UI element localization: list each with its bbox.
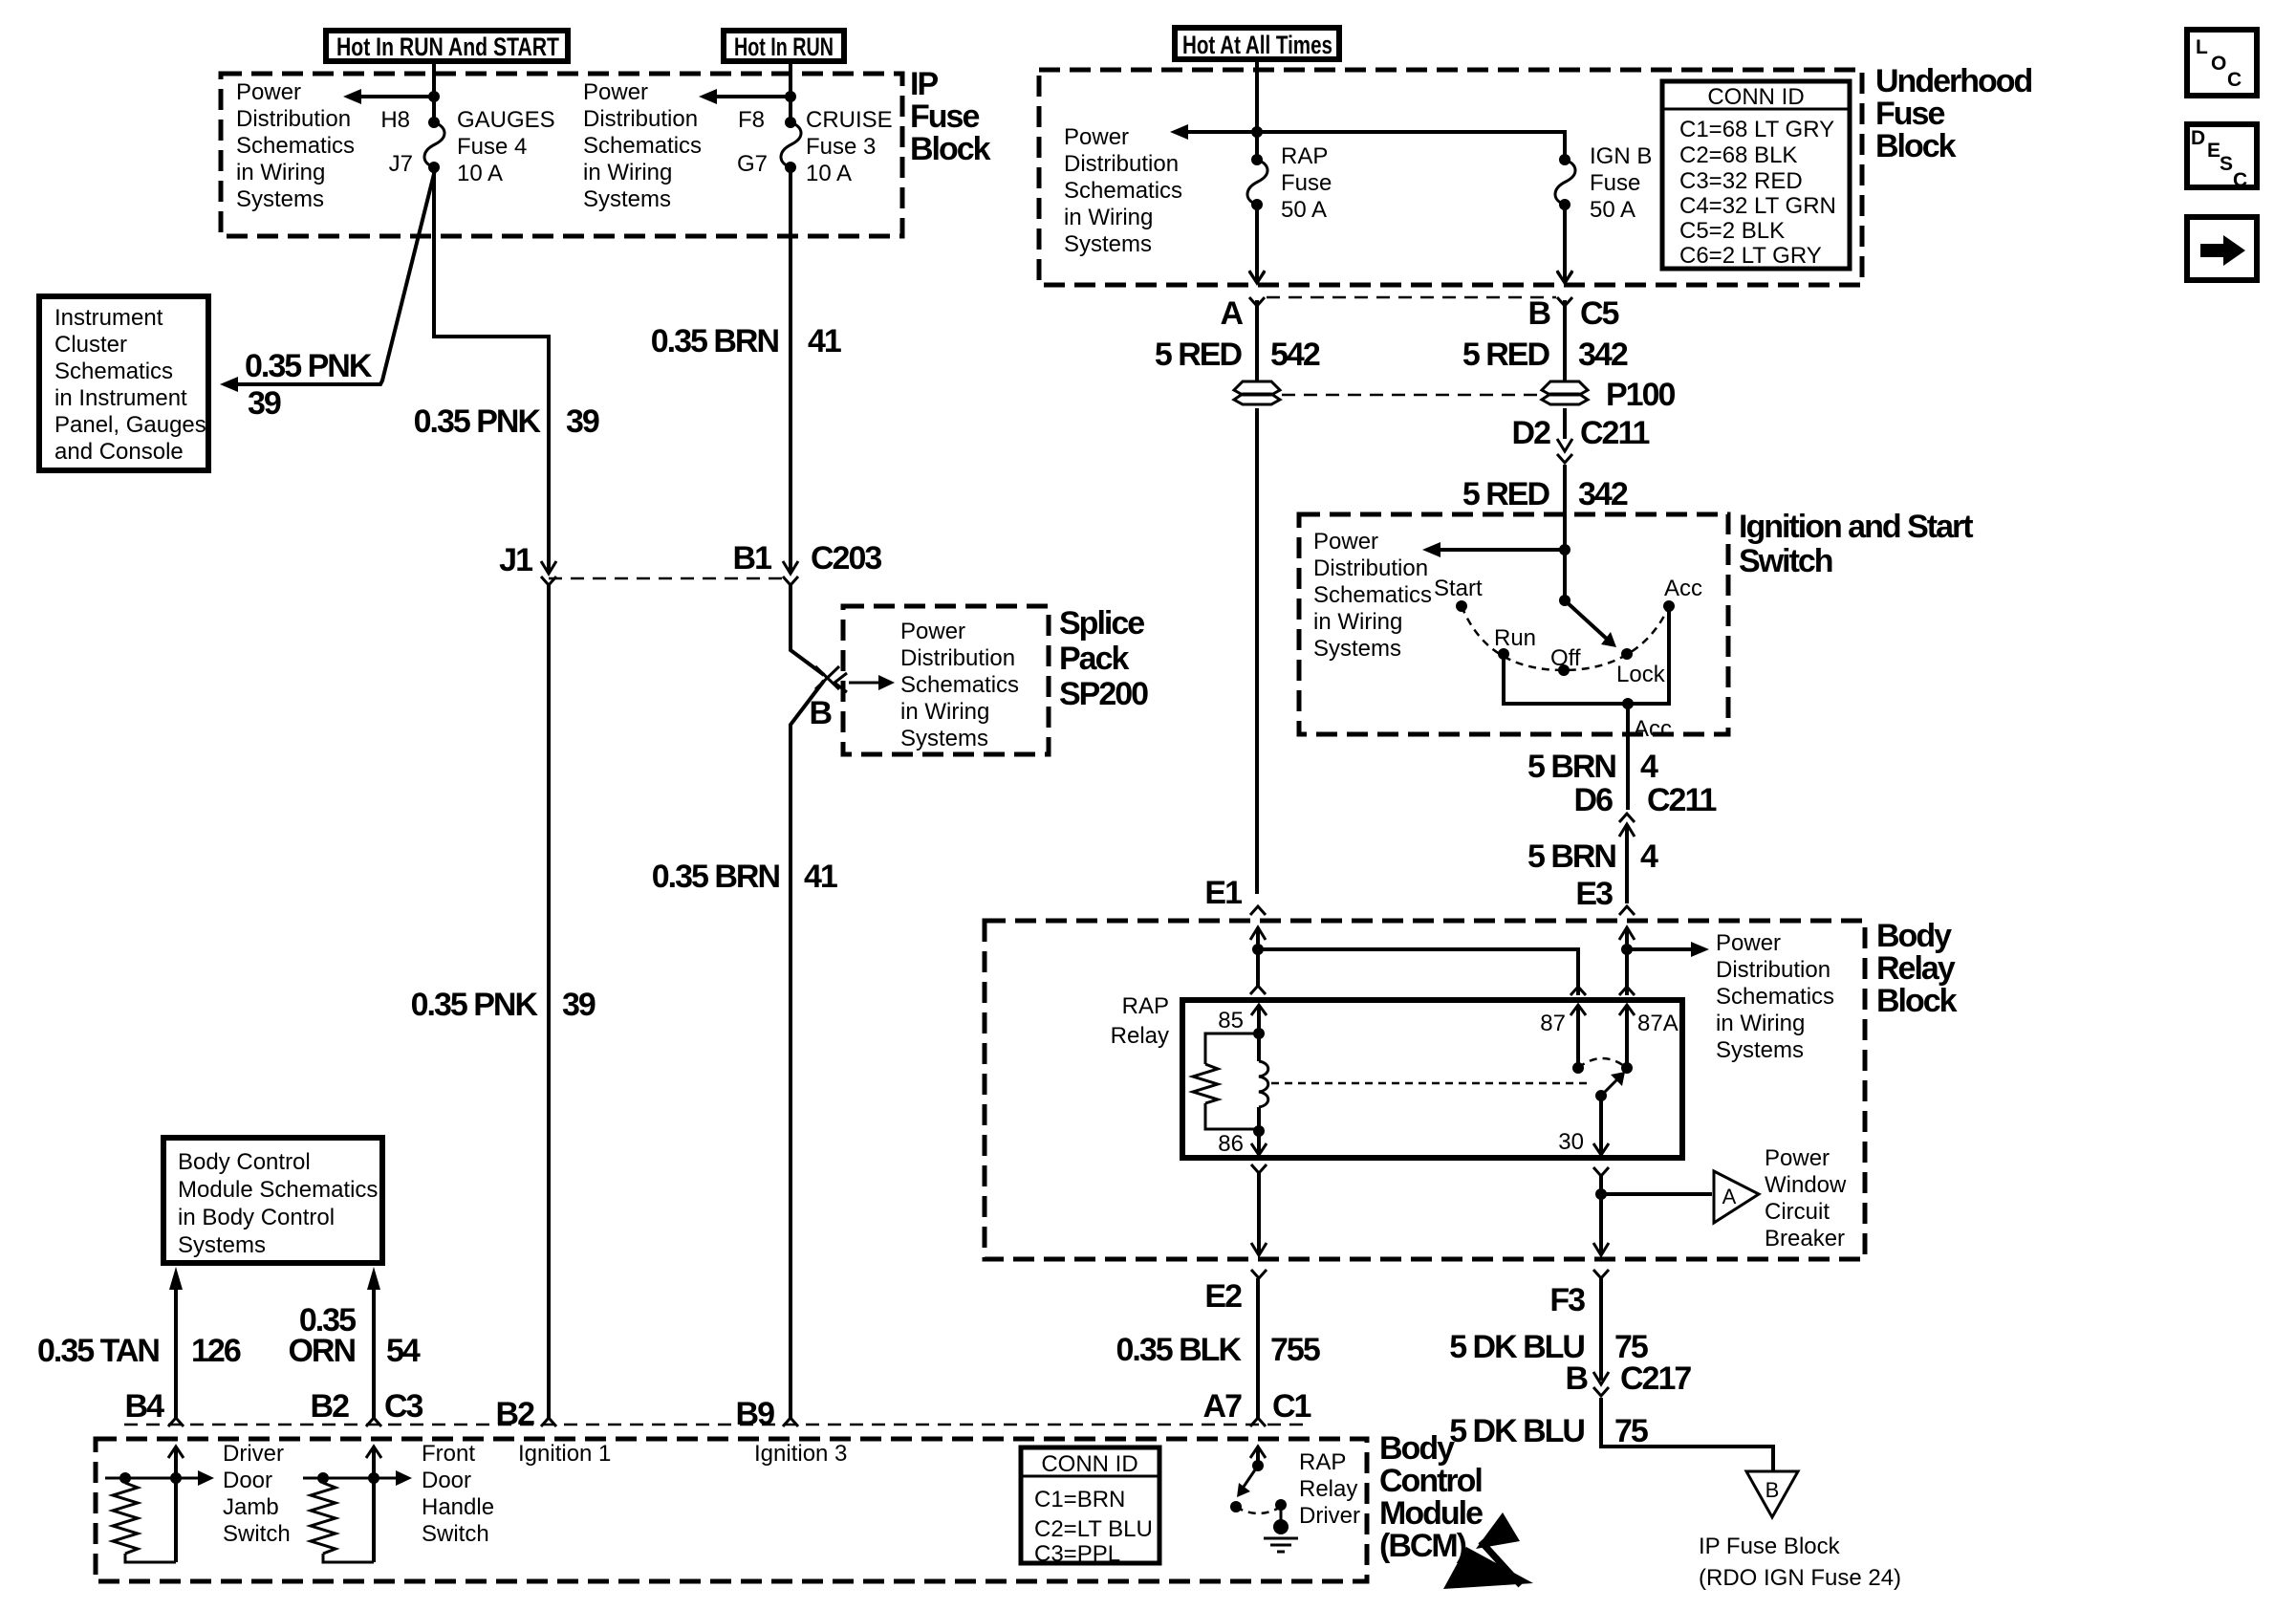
svg-text:C203: C203: [811, 540, 881, 577]
svg-text:C1: C1: [1272, 1388, 1311, 1425]
svg-text:Start: Start: [1434, 576, 1483, 601]
svg-text:D2: D2: [1512, 415, 1551, 451]
svg-text:4: 4: [1640, 838, 1658, 875]
svg-text:B2: B2: [311, 1388, 350, 1425]
svg-text:87A: 87A: [1637, 1011, 1679, 1036]
svg-text:Window: Window: [1765, 1172, 1847, 1198]
svg-text:542: 542: [1270, 337, 1320, 373]
svg-text:A: A: [1220, 295, 1243, 332]
svg-text:Acc: Acc: [1664, 576, 1702, 601]
svg-text:0.35 PNK: 0.35 PNK: [245, 348, 373, 384]
svg-text:Systems: Systems: [1313, 636, 1401, 662]
svg-text:39: 39: [248, 385, 281, 422]
svg-text:5 RED: 5 RED: [1462, 337, 1550, 373]
svg-text:Switch: Switch: [422, 1521, 489, 1547]
svg-text:86: 86: [1218, 1131, 1244, 1157]
svg-text:0.35 PNK: 0.35 PNK: [414, 403, 542, 440]
svg-text:Splice: Splice: [1059, 605, 1144, 642]
svg-text:Hot In RUN And START: Hot In RUN And START: [336, 33, 559, 61]
svg-text:Power: Power: [1765, 1145, 1830, 1171]
svg-text:Schematics: Schematics: [1716, 984, 1834, 1010]
svg-text:Body: Body: [1876, 918, 1952, 954]
svg-text:Systems: Systems: [900, 726, 988, 751]
svg-text:C1=68 LT GRY: C1=68 LT GRY: [1679, 117, 1834, 142]
svg-text:Switch: Switch: [223, 1521, 291, 1547]
svg-text:Module: Module: [1379, 1495, 1483, 1532]
svg-text:Handle: Handle: [422, 1494, 494, 1520]
svg-text:B: B: [1765, 1478, 1780, 1502]
svg-text:RAP: RAP: [1281, 143, 1328, 169]
svg-text:Door: Door: [422, 1468, 471, 1493]
svg-text:Cluster: Cluster: [54, 332, 127, 358]
svg-text:D6: D6: [1574, 782, 1614, 818]
svg-text:Systems: Systems: [583, 186, 671, 212]
svg-text:Ignition 1: Ignition 1: [518, 1441, 611, 1467]
svg-text:Distribution: Distribution: [1313, 555, 1428, 581]
svg-text:Power: Power: [583, 79, 648, 105]
svg-text:75: 75: [1614, 1413, 1648, 1449]
svg-text:in Body Control: in Body Control: [178, 1205, 335, 1230]
svg-text:39: 39: [566, 403, 599, 440]
svg-text:E3: E3: [1575, 876, 1613, 912]
svg-text:Relay: Relay: [1111, 1023, 1169, 1049]
svg-text:Relay: Relay: [1299, 1476, 1357, 1502]
svg-text:CONN ID: CONN ID: [1041, 1451, 1137, 1477]
svg-text:C211: C211: [1580, 415, 1649, 451]
svg-text:Fuse: Fuse: [1875, 96, 1944, 132]
svg-text:B4: B4: [125, 1388, 165, 1425]
svg-text:Underhood: Underhood: [1875, 63, 2032, 99]
svg-text:(RDO IGN Fuse 24): (RDO IGN Fuse 24): [1699, 1565, 1901, 1591]
svg-text:IGN B: IGN B: [1590, 143, 1652, 169]
svg-text:and Console: and Console: [54, 439, 184, 465]
svg-text:Panel, Gauges: Panel, Gauges: [54, 412, 206, 438]
svg-text:Relay: Relay: [1876, 950, 1956, 987]
svg-text:Fuse 4: Fuse 4: [457, 134, 527, 160]
svg-text:Power: Power: [1716, 930, 1781, 956]
svg-text:Power: Power: [1313, 529, 1378, 555]
svg-text:Block: Block: [910, 131, 991, 167]
svg-text:Circuit: Circuit: [1765, 1199, 1830, 1225]
svg-text:50 A: 50 A: [1590, 197, 1635, 223]
svg-text:0.35 BLK: 0.35 BLK: [1116, 1332, 1243, 1368]
svg-text:Control: Control: [1379, 1463, 1482, 1499]
svg-text:Power: Power: [900, 619, 965, 644]
svg-text:C2=LT BLU: C2=LT BLU: [1034, 1516, 1153, 1542]
svg-text:C4=32 LT GRN: C4=32 LT GRN: [1679, 193, 1836, 219]
svg-text:10 A: 10 A: [806, 161, 852, 186]
svg-text:41: 41: [804, 859, 837, 895]
svg-text:C6=2 LT GRY: C6=2 LT GRY: [1679, 243, 1822, 269]
svg-text:0.35 TAN: 0.35 TAN: [37, 1333, 159, 1369]
svg-text:Fuse: Fuse: [1590, 170, 1640, 196]
svg-text:Acc: Acc: [1634, 716, 1672, 742]
svg-text:Body Control: Body Control: [178, 1149, 311, 1175]
svg-text:Ignition 3: Ignition 3: [754, 1441, 847, 1467]
svg-text:L: L: [2196, 36, 2208, 58]
svg-text:ORN: ORN: [288, 1333, 355, 1369]
svg-text:in Wiring: in Wiring: [1064, 205, 1153, 230]
svg-text:C: C: [2227, 69, 2242, 91]
svg-text:P100: P100: [1606, 377, 1675, 413]
svg-text:in Wiring: in Wiring: [583, 160, 672, 185]
svg-text:S: S: [2220, 153, 2233, 175]
svg-text:GAUGES: GAUGES: [457, 107, 555, 133]
svg-text:IP: IP: [910, 66, 938, 102]
svg-text:C3=32 RED: C3=32 RED: [1679, 168, 1803, 194]
svg-text:SP200: SP200: [1059, 676, 1148, 712]
svg-text:B: B: [1527, 295, 1550, 332]
svg-text:E: E: [2207, 140, 2220, 162]
svg-text:Schematics: Schematics: [236, 133, 355, 159]
svg-text:Systems: Systems: [1716, 1037, 1804, 1063]
svg-text:in Wiring: in Wiring: [1313, 609, 1402, 635]
svg-text:C217: C217: [1620, 1360, 1691, 1397]
svg-text:A: A: [1722, 1185, 1737, 1208]
svg-text:E2: E2: [1204, 1278, 1242, 1315]
svg-text:126: 126: [191, 1333, 241, 1369]
svg-text:Breaker: Breaker: [1765, 1226, 1845, 1251]
svg-text:in Wiring: in Wiring: [1716, 1011, 1805, 1036]
svg-text:0.35 PNK: 0.35 PNK: [411, 987, 539, 1023]
svg-text:Block: Block: [1875, 128, 1957, 164]
svg-text:Distribution: Distribution: [1716, 957, 1830, 983]
svg-text:J1: J1: [499, 542, 532, 578]
svg-text:Block: Block: [1876, 983, 1958, 1019]
svg-text:Power: Power: [236, 79, 301, 105]
svg-text:41: 41: [808, 323, 841, 359]
svg-text:B: B: [1565, 1360, 1588, 1397]
svg-text:Distribution: Distribution: [583, 106, 698, 132]
svg-text:B2: B2: [496, 1396, 535, 1432]
svg-text:Driver: Driver: [1299, 1503, 1360, 1529]
svg-text:RAP: RAP: [1122, 993, 1169, 1019]
svg-text:C1=BRN: C1=BRN: [1034, 1487, 1125, 1512]
svg-text:5 RED: 5 RED: [1155, 337, 1243, 373]
svg-text:755: 755: [1270, 1332, 1320, 1368]
svg-text:in Wiring: in Wiring: [900, 699, 989, 725]
svg-text:0.35 BRN: 0.35 BRN: [651, 323, 779, 359]
svg-text:5 DK BLU: 5 DK BLU: [1449, 1413, 1584, 1449]
svg-text:Schematics: Schematics: [583, 133, 702, 159]
svg-text:B1: B1: [733, 540, 772, 577]
svg-text:Schematics: Schematics: [1313, 582, 1432, 608]
svg-text:Ignition and Start: Ignition and Start: [1739, 509, 1973, 545]
svg-text:5 DK BLU: 5 DK BLU: [1449, 1329, 1584, 1365]
svg-text:Front: Front: [422, 1441, 475, 1467]
svg-text:O: O: [2211, 53, 2226, 75]
svg-text:4: 4: [1640, 749, 1658, 785]
svg-text:54: 54: [386, 1333, 421, 1369]
svg-text:D: D: [2191, 127, 2205, 149]
svg-text:C: C: [2233, 169, 2247, 191]
svg-text:F8: F8: [738, 107, 765, 133]
svg-text:Body: Body: [1379, 1430, 1455, 1467]
svg-text:5 RED: 5 RED: [1462, 476, 1550, 512]
svg-text:10 A: 10 A: [457, 161, 503, 186]
svg-text:C3: C3: [384, 1388, 423, 1425]
svg-text:Hot At All Times: Hot At All Times: [1182, 31, 1332, 59]
svg-text:F3: F3: [1549, 1282, 1585, 1318]
svg-text:Door: Door: [223, 1468, 272, 1493]
svg-text:C3=PPL: C3=PPL: [1034, 1541, 1120, 1567]
svg-text:Fuse: Fuse: [1281, 170, 1332, 196]
svg-text:Jamb: Jamb: [223, 1494, 279, 1520]
svg-text:Schematics: Schematics: [1064, 178, 1182, 204]
svg-text:CONN ID: CONN ID: [1707, 84, 1804, 110]
svg-text:85: 85: [1218, 1008, 1244, 1033]
svg-text:in Wiring: in Wiring: [236, 160, 325, 185]
svg-text:IP Fuse Block: IP Fuse Block: [1699, 1534, 1841, 1559]
svg-text:Systems: Systems: [178, 1232, 266, 1258]
svg-text:Fuse 3: Fuse 3: [806, 134, 876, 160]
svg-text:Fuse: Fuse: [910, 98, 979, 135]
svg-text:Off: Off: [1550, 645, 1581, 671]
svg-text:Distribution: Distribution: [900, 645, 1015, 671]
svg-text:Systems: Systems: [236, 186, 324, 212]
svg-text:C211: C211: [1647, 782, 1716, 818]
svg-text:C2=68 BLK: C2=68 BLK: [1679, 142, 1797, 168]
svg-text:342: 342: [1578, 337, 1628, 373]
svg-text:RAP: RAP: [1299, 1449, 1346, 1475]
svg-text:C5=2 BLK: C5=2 BLK: [1679, 218, 1785, 244]
svg-text:Instrument: Instrument: [54, 305, 163, 331]
svg-text:Systems: Systems: [1064, 231, 1152, 257]
svg-text:Switch: Switch: [1739, 543, 1832, 579]
svg-text:C5: C5: [1580, 295, 1619, 332]
svg-text:Lock: Lock: [1616, 662, 1666, 687]
svg-text:Schematics: Schematics: [900, 672, 1019, 698]
svg-text:Schematics: Schematics: [54, 359, 173, 384]
svg-text:Module Schematics: Module Schematics: [178, 1177, 378, 1203]
svg-text:Run: Run: [1494, 625, 1536, 651]
svg-text:B: B: [809, 695, 832, 731]
svg-text:Distribution: Distribution: [1064, 151, 1179, 177]
svg-text:50 A: 50 A: [1281, 197, 1327, 223]
svg-text:Power: Power: [1064, 124, 1129, 150]
svg-text:E1: E1: [1204, 875, 1242, 911]
svg-text:in Instrument: in Instrument: [54, 385, 187, 411]
svg-text:5 BRN: 5 BRN: [1527, 749, 1615, 785]
svg-text:B9: B9: [736, 1396, 775, 1432]
svg-text:30: 30: [1558, 1129, 1584, 1155]
svg-text:5 BRN: 5 BRN: [1527, 838, 1615, 875]
svg-text:87: 87: [1540, 1011, 1566, 1036]
svg-text:J7: J7: [389, 151, 413, 177]
svg-text:342: 342: [1578, 476, 1628, 512]
svg-text:Distribution: Distribution: [236, 106, 351, 132]
svg-text:(BCM): (BCM): [1379, 1528, 1466, 1564]
svg-text:Hot In RUN: Hot In RUN: [734, 33, 834, 61]
svg-text:39: 39: [562, 987, 596, 1023]
svg-text:H8: H8: [380, 107, 410, 133]
svg-text:CRUISE: CRUISE: [806, 107, 893, 133]
svg-text:0.35 BRN: 0.35 BRN: [652, 859, 780, 895]
svg-text:Driver: Driver: [223, 1441, 284, 1467]
svg-text:G7: G7: [737, 151, 768, 177]
svg-text:A7: A7: [1203, 1388, 1243, 1425]
svg-text:Pack: Pack: [1059, 641, 1129, 677]
